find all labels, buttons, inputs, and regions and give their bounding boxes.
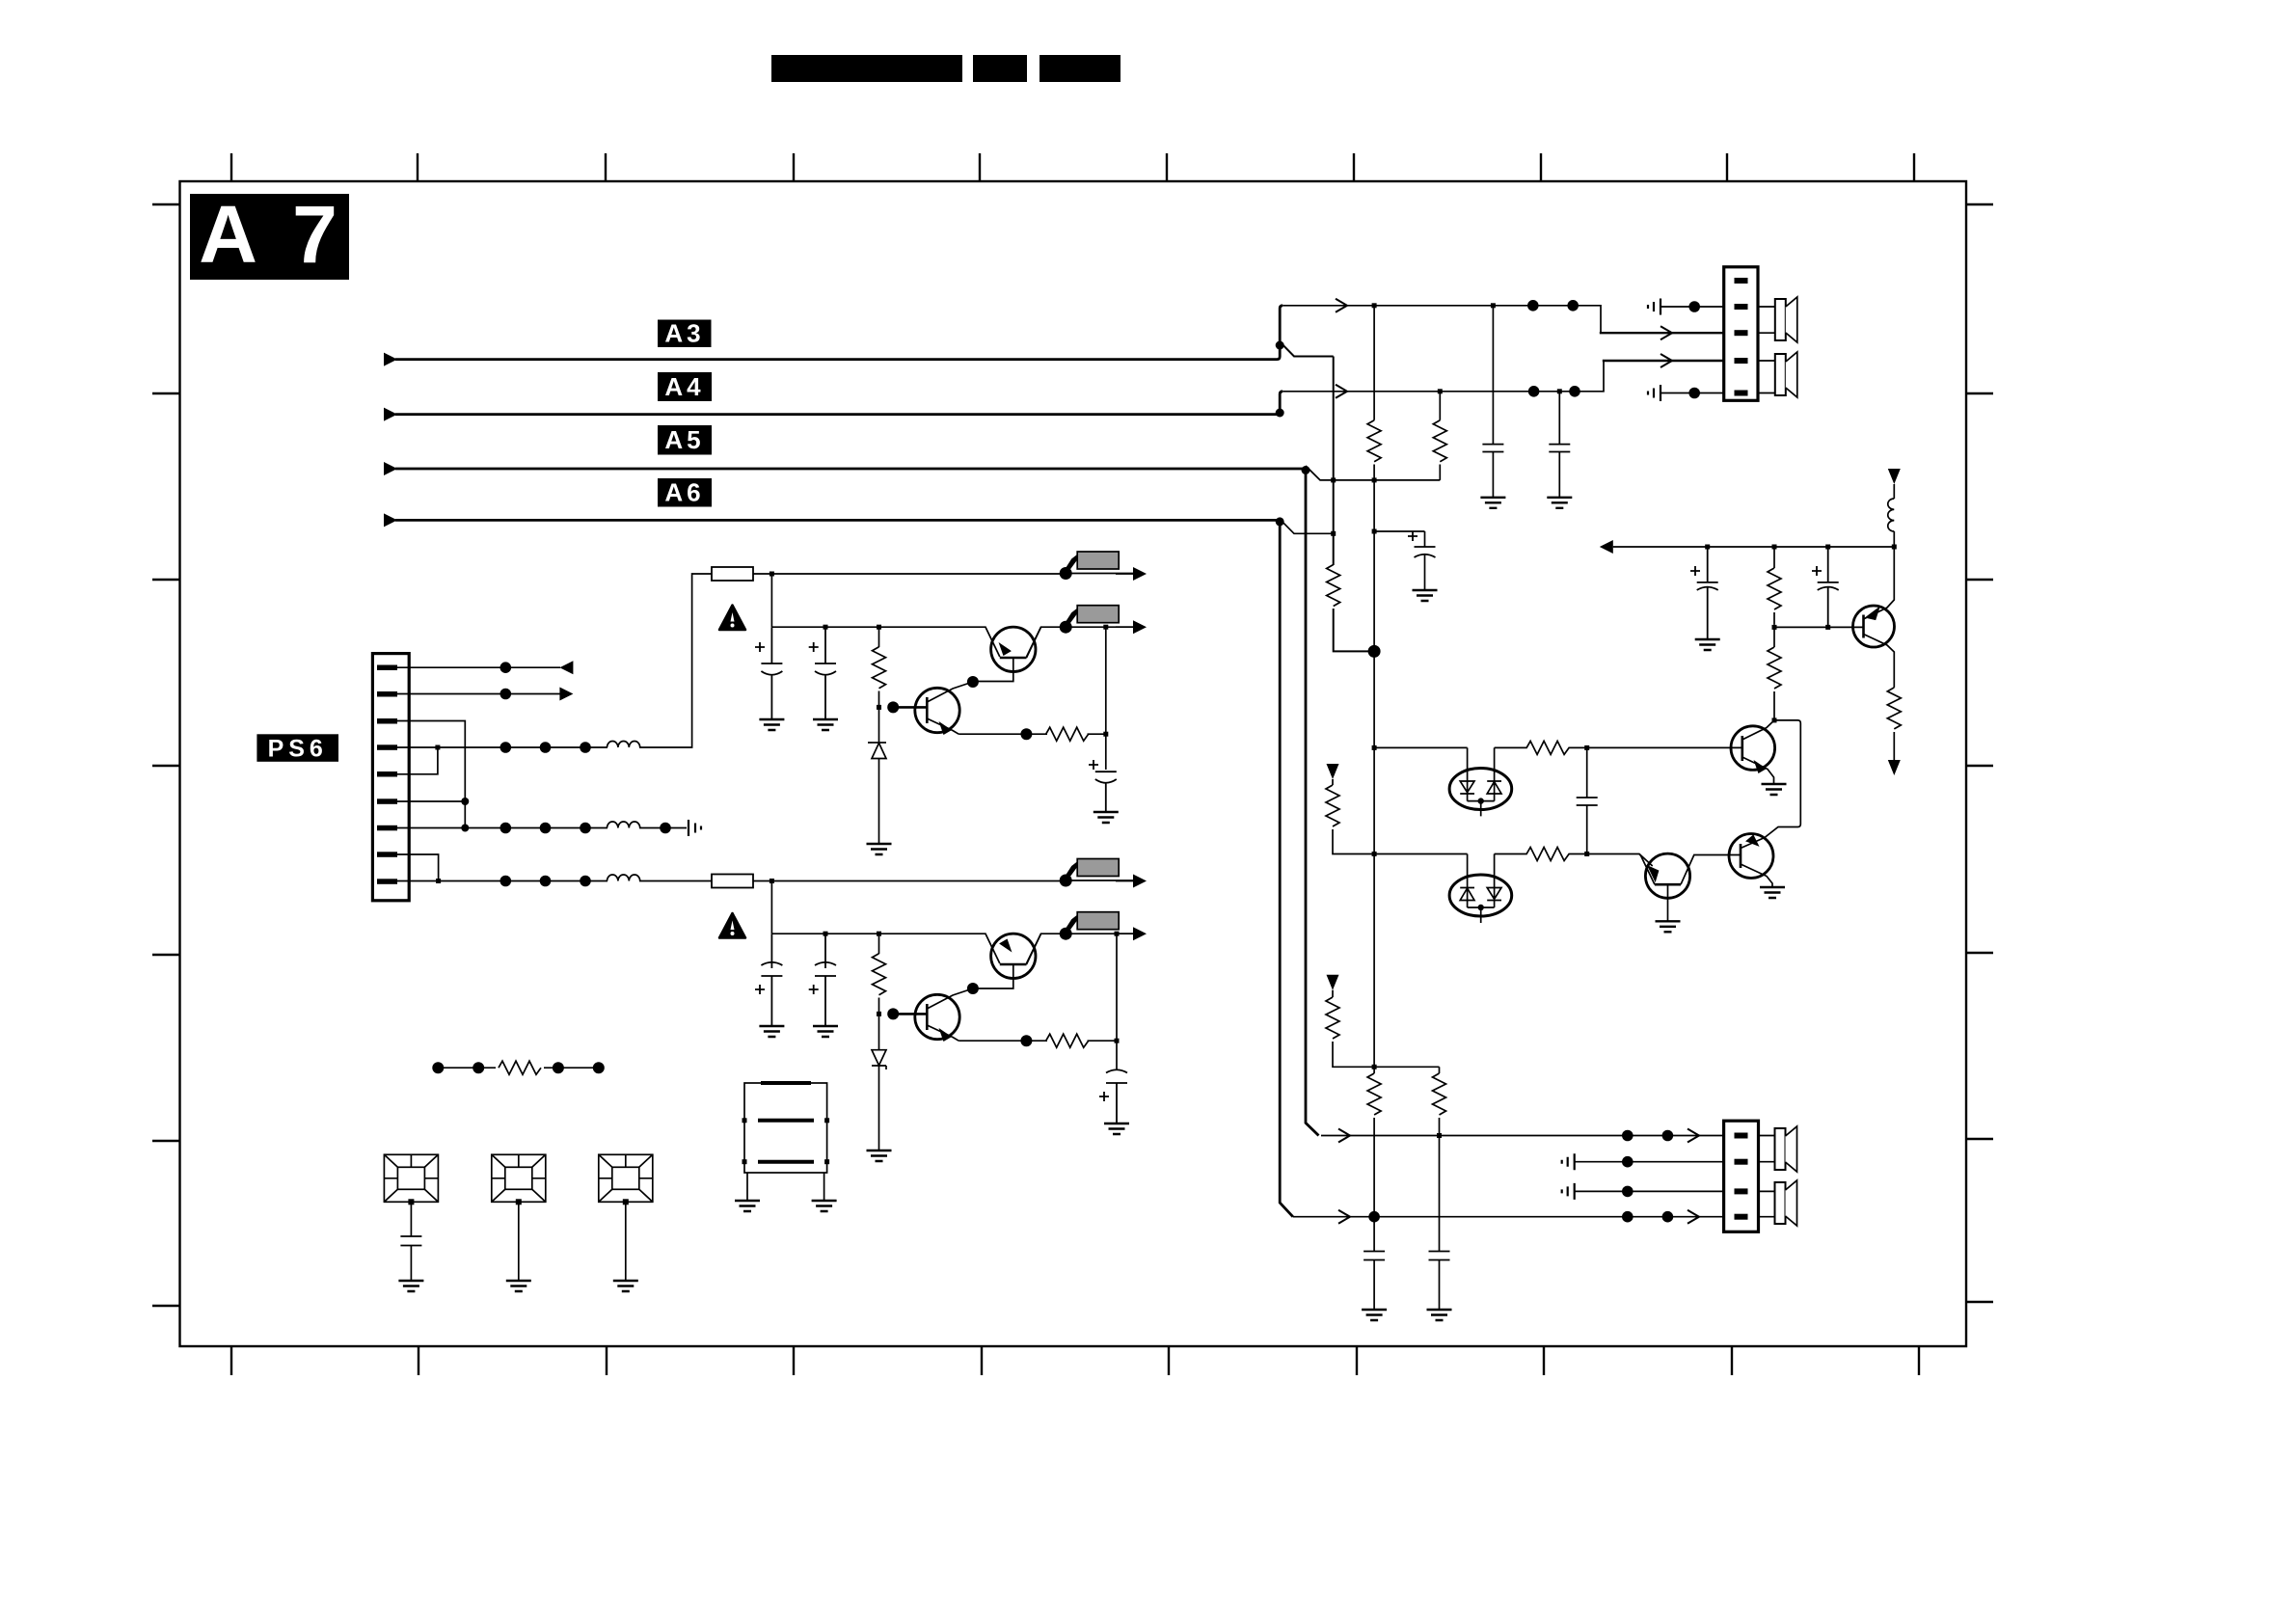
spark gap pad 1 <box>384 1154 438 1204</box>
node dot pin4 b <box>540 742 552 753</box>
wire supply row ch1 <box>771 627 1066 657</box>
bus wire A3 <box>384 353 397 366</box>
node junction on A5 branch at rail1 <box>1331 477 1336 482</box>
wire rail down ch2 <box>770 881 772 934</box>
wire spark-gap row <box>438 1067 599 1069</box>
node junction W1 rail <box>1372 303 1377 308</box>
net label A6 <box>658 478 712 507</box>
node junction W2 cap <box>1557 389 1562 393</box>
supply arrow down row2 feed <box>1327 764 1339 779</box>
capacitor pad1 <box>400 1236 421 1246</box>
pin 9 <box>377 879 397 884</box>
resistor bottom Rb <box>1439 1067 1441 1073</box>
node dot A6 bend <box>1276 517 1284 526</box>
wire to loudspeaker1 <box>1758 307 1775 333</box>
ground Cw2 <box>1547 498 1572 508</box>
loudspeaker LS2 <box>1775 352 1797 397</box>
loudspeaker LS1 <box>1775 297 1797 342</box>
inductor L1 <box>607 742 640 748</box>
node junction coil rail <box>1892 545 1897 550</box>
pin t1 <box>1735 278 1748 284</box>
connector PS6 label <box>256 734 338 762</box>
wire right rail ch1 <box>1105 627 1107 770</box>
wire pin3 to vertical tie <box>397 721 465 828</box>
jumper block body <box>744 1083 827 1173</box>
node dot row b <box>472 1062 484 1073</box>
pin t2 <box>1735 304 1748 310</box>
pin 5 <box>377 771 397 777</box>
wire E base row <box>1774 626 1864 628</box>
resistor mid R1 <box>1773 547 1775 625</box>
transistor Q4 ch2 <box>991 934 1036 978</box>
switch S1 <box>1060 552 1134 580</box>
wire pad3 down <box>625 1202 627 1281</box>
wire supply row ch2 <box>771 934 1066 963</box>
node junction bot right <box>824 1159 829 1164</box>
node junction row2 cap <box>1584 852 1589 856</box>
supply arrow down into coil <box>1888 469 1901 484</box>
wire base ch1 <box>893 706 927 709</box>
pin 8 <box>377 852 397 857</box>
node junction W2 res <box>1438 389 1443 393</box>
capacitor branch cap <box>1415 547 1436 557</box>
node dot pin2 <box>500 689 512 700</box>
wire bottom feed2 <box>1293 1216 1724 1218</box>
pin b4 <box>1735 1214 1748 1220</box>
supply arrow down bottom feed <box>1327 975 1339 990</box>
ground Cw1 <box>1480 498 1505 508</box>
ground pad3 <box>613 1281 638 1291</box>
svg-text:A5: A5 <box>664 425 704 454</box>
ground D1 ch2 <box>867 1150 892 1161</box>
node dot pin7 b <box>540 823 552 834</box>
svg-text:A4: A4 <box>664 372 704 401</box>
wire mid supply row <box>1613 546 1895 548</box>
inductor L3 <box>607 875 640 881</box>
node junction W1 cap <box>1491 303 1496 308</box>
wire return1 <box>1575 1161 1724 1163</box>
wire return2 <box>1575 1190 1724 1192</box>
node dot Q3 collector <box>967 983 979 994</box>
wire pin6 out <box>397 800 465 802</box>
transistor Q8 <box>1645 853 1689 898</box>
node dot pin7 c <box>580 823 591 834</box>
node dot feed2 a <box>1622 1211 1633 1223</box>
ground C3 ch2 <box>1104 1123 1129 1134</box>
ground Q8 <box>1656 921 1681 932</box>
capacitor C2 ch1 <box>815 627 836 719</box>
pin 6 <box>377 798 397 804</box>
arrow out mid-left <box>1600 540 1613 554</box>
transistor Q7 <box>1729 834 1773 879</box>
ground Q7 emitter <box>1760 887 1785 898</box>
arrow out channel1 top <box>1133 567 1147 581</box>
node junction right rail ch1 <box>1103 625 1108 630</box>
wire bottom feed1 <box>1321 1135 1724 1137</box>
pin b2 <box>1735 1159 1748 1165</box>
resistor Q6 collector feed <box>1773 627 1775 647</box>
rail from A3 branch down <box>1334 357 1368 652</box>
ground pad2 <box>506 1281 531 1291</box>
svg-text:PS6: PS6 <box>268 735 328 762</box>
capacitor C1 ch2 <box>761 934 782 1026</box>
wire base ch2 <box>893 1013 927 1015</box>
node junction rail row2 <box>1372 852 1377 856</box>
resistor row2 feed <box>1332 779 1334 785</box>
svg-text:A 7: A 7 <box>199 189 345 280</box>
node dot base ch2 <box>887 1008 899 1019</box>
connector bottom speakers body <box>1724 1121 1759 1232</box>
node junction row1 cap <box>1584 745 1589 750</box>
wire A5 branch <box>1306 466 1440 480</box>
node dot A3 branch point <box>1276 341 1284 350</box>
node junction R2 right ch1 <box>1103 732 1108 737</box>
wire A6 branch <box>1280 519 1334 533</box>
wire Q1 emitter row <box>958 733 1106 735</box>
wire right rail ch2 <box>1116 934 1118 1070</box>
node junction bottom node rail <box>1372 1065 1377 1069</box>
node dot row a <box>432 1062 444 1073</box>
chassis ground return2 <box>1562 1183 1575 1200</box>
supply arrow down out <box>1888 760 1901 775</box>
transistor Q3 ch2 <box>915 994 959 1039</box>
node junction base ch1 <box>877 705 881 710</box>
wire to loudspeaker4 <box>1759 1191 1775 1216</box>
resistor Q5 emitter <box>1887 688 1901 729</box>
arrow out channel2 top <box>1133 875 1147 888</box>
wire S3 to arrow <box>1116 880 1134 882</box>
bus wire A4 <box>384 408 397 421</box>
node junction mid cap1 <box>1705 545 1710 550</box>
node junction bot left <box>742 1159 747 1164</box>
pin b3 <box>1735 1188 1748 1194</box>
open arrow feed A4 a <box>1336 385 1347 398</box>
loudspeaker LS4 <box>1775 1180 1797 1226</box>
arrow out channel2 mid <box>1133 927 1147 940</box>
wire S2 to arrow <box>1116 626 1134 628</box>
capacitor Cw1 <box>1482 306 1503 498</box>
node dot W2 b <box>1569 386 1580 397</box>
node dot feed1 b <box>1662 1130 1674 1142</box>
ground bottom Ca <box>1362 1310 1387 1320</box>
open arrow feed2 b <box>1687 1210 1699 1224</box>
wire pin5 tie up <box>397 747 438 774</box>
wire pin8 tie down <box>397 854 439 881</box>
node dot pin9 a <box>500 876 512 887</box>
capacitor mid C1 <box>1697 547 1718 639</box>
open arrow feed1 b <box>1687 1129 1699 1143</box>
capacitor mid C2 <box>1818 547 1839 627</box>
resistor R2 ch1 <box>1046 727 1089 741</box>
node dot pin3/pin7 tie <box>461 825 469 832</box>
node dot row d <box>593 1062 605 1073</box>
wire A3 branch to rail <box>1280 341 1334 356</box>
node dot Q1 collector <box>967 676 979 688</box>
capacitor Cw2 <box>1549 392 1570 498</box>
node dot pin3/pin6 tie <box>461 798 469 805</box>
node junction res1 ch1 <box>877 625 881 630</box>
pin 3 <box>377 718 397 724</box>
net label A4 <box>658 372 712 401</box>
node dot speaker1 return <box>1688 301 1700 312</box>
wire F2 to switch <box>753 880 1066 882</box>
chassis ground speaker2 return <box>1648 385 1660 401</box>
connector top speakers body <box>1724 267 1758 401</box>
node junction on A6 branch at rail1 <box>1331 531 1336 536</box>
node dot return1 <box>1622 1156 1633 1168</box>
warning triangle ch1 <box>719 606 745 631</box>
chassis ground return1 <box>1562 1153 1575 1170</box>
node junction cap2 bottom <box>1825 625 1830 630</box>
resistor bottom Ra <box>1373 1067 1375 1073</box>
node dot pin4 c <box>580 742 591 753</box>
resistor divider R2 top <box>1439 392 1441 480</box>
transistor Q6 <box>1731 726 1775 771</box>
node junction R2 right ch2 <box>1115 1039 1120 1043</box>
open arrow feed A3 b <box>1660 326 1672 339</box>
ground bottom Cb <box>1427 1310 1452 1320</box>
switch S2 <box>1060 606 1134 634</box>
jumper bar top <box>761 1081 811 1085</box>
node dot pin9 b <box>540 876 552 887</box>
bus wire A5 <box>384 462 397 475</box>
wire to loudspeaker3 <box>1759 1136 1775 1162</box>
wire to loudspeaker2 <box>1758 361 1775 393</box>
spark gap pad 3 <box>599 1154 653 1204</box>
switch S3 <box>1060 859 1134 887</box>
node junction cap1 ch2 <box>823 932 828 936</box>
wire opto row1 <box>1374 746 1742 748</box>
title redaction bar 2 <box>973 55 1027 82</box>
node dot A5 bend <box>1302 466 1310 474</box>
capacitor C2 ch2 <box>815 934 836 1026</box>
node junction on A5 branch at rail2 <box>1372 477 1377 482</box>
pin 1 <box>377 665 397 671</box>
optocoupler diode pair D11 <box>1449 854 1512 924</box>
ground mid C1 <box>1695 639 1720 650</box>
capacitor C3 ch1 <box>1095 771 1117 812</box>
node junction mid res <box>1772 545 1777 550</box>
pin t5 <box>1735 391 1748 396</box>
ground C2 ch2 <box>813 1026 838 1037</box>
node dot W1 b <box>1567 300 1579 311</box>
arrow out pin2 (right) <box>559 688 573 701</box>
wire pin9 out <box>397 880 712 882</box>
zener D1 ch2 <box>872 1014 886 1150</box>
pin 7 <box>377 826 397 831</box>
node junction E base <box>1772 625 1777 630</box>
open arrow feed1 a <box>1338 1129 1350 1143</box>
node junction mid right <box>824 1118 829 1123</box>
arrow out channel1 mid <box>1133 620 1147 634</box>
resistor R1 ch2 <box>878 934 880 1014</box>
wire opto row2 <box>1374 854 1653 867</box>
resistor R1 ch1 <box>878 627 880 707</box>
node junction pin4/pin5 <box>435 745 440 750</box>
node dot return2 <box>1622 1186 1633 1198</box>
pin t3 <box>1735 330 1748 336</box>
optocoupler diode pair D10 <box>1449 747 1512 816</box>
node dot base ch1 <box>887 701 899 713</box>
node dot feed1 a <box>1622 1130 1633 1142</box>
zener D1 ch1 <box>868 707 886 844</box>
wire pin1 out <box>397 666 560 668</box>
resistor in A3 rail <box>1327 565 1340 607</box>
node dot W2 a <box>1528 386 1540 397</box>
ground C1 ch2 <box>759 1026 784 1037</box>
ground C2 ch1 <box>813 719 838 730</box>
wire cap branch <box>1374 531 1424 590</box>
net label A5 <box>658 425 712 455</box>
wire speaker1 return <box>1660 306 1724 308</box>
bus wire A6 <box>384 513 397 527</box>
wire Q3 emitter row <box>958 1040 1117 1042</box>
pin 4 <box>377 744 397 750</box>
svg-text:A6: A6 <box>664 478 704 507</box>
border frame <box>180 181 1967 1346</box>
node junction Q6 collector <box>1772 717 1777 722</box>
ground C1 ch1 <box>759 719 784 730</box>
ground D1 ch1 <box>867 844 892 854</box>
wire feed A4 top <box>1282 361 1604 392</box>
fuse F1 <box>712 567 753 581</box>
node junction F2 out <box>769 879 774 883</box>
transistor Q5 <box>1853 606 1895 647</box>
ground Q6 emitter <box>1762 784 1787 795</box>
node dot speaker2 return <box>1688 388 1700 399</box>
open arrow feed A4 b <box>1660 354 1672 367</box>
pin t4 <box>1735 358 1748 364</box>
title redaction bar 1 <box>771 55 962 82</box>
switch S4 <box>1060 912 1134 940</box>
warning triangle ch2 <box>719 913 745 938</box>
node dot Ra wire2 <box>1368 1211 1380 1223</box>
wire pin4 out <box>397 574 712 747</box>
resistor row2 <box>1526 848 1569 861</box>
board label A7 <box>190 194 349 280</box>
jumper bar mid <box>758 1119 814 1123</box>
wire pad2 down <box>518 1202 520 1281</box>
node dot row c <box>553 1062 564 1073</box>
node junction mid left <box>742 1118 747 1123</box>
node junction res1 ch2 <box>877 932 881 936</box>
node junction pin8/pin9 <box>436 879 441 883</box>
capacitor between rows <box>1577 747 1598 853</box>
fuse F2 <box>712 875 753 888</box>
node dot feed2 b <box>1662 1211 1674 1223</box>
svg-text:A3: A3 <box>664 319 704 348</box>
wire S1 to arrow <box>1116 573 1134 575</box>
node dot W1 a <box>1527 300 1539 311</box>
capacitor C1 ch1 <box>761 627 782 719</box>
wire pin2 out <box>397 693 560 695</box>
transistor Q1 ch1 <box>915 688 959 732</box>
inductor mid rail <box>1888 484 1895 547</box>
wire Q6 to Q7 link <box>1765 720 1800 838</box>
wire F1 to switch <box>753 573 1066 575</box>
open arrow feed2 a <box>1338 1210 1350 1224</box>
node junction Rb wire1 <box>1437 1133 1442 1138</box>
title redaction bar 3 <box>1039 55 1120 82</box>
wire pad1 down <box>410 1202 412 1281</box>
node dot A4 bend <box>1276 409 1284 418</box>
capacitor C3 ch2 <box>1106 1069 1127 1123</box>
ground C3 ch1 <box>1093 812 1119 823</box>
loudspeaker LS3 <box>1775 1126 1797 1172</box>
wire S4 to arrow <box>1116 933 1134 934</box>
pin b1 <box>1735 1133 1748 1139</box>
chassis ground speaker1 return <box>1648 299 1660 315</box>
spark gap pad 2 <box>492 1154 546 1204</box>
open arrow feed A3 a <box>1336 299 1347 312</box>
wire pin7 out <box>397 827 687 829</box>
node dot emitter row ch1 <box>1020 728 1032 740</box>
node dot pin7 a <box>500 823 512 834</box>
node junction rail row1 <box>1372 745 1377 750</box>
pin 2 <box>377 691 397 697</box>
net label A3 <box>658 320 712 348</box>
node junction cap1 ch1 <box>823 625 828 630</box>
node dot rail joint <box>1368 645 1381 658</box>
ground jumper right <box>812 1201 837 1211</box>
wire jumper legs <box>747 1173 824 1201</box>
resistor row1 <box>1526 741 1569 754</box>
resistor bottom feed <box>1332 990 1334 997</box>
node dot pin7 d <box>660 823 671 834</box>
transistor Q2 ch1 <box>991 627 1036 671</box>
arrow out pin1 (left) <box>559 661 573 674</box>
node dot pin4 a <box>500 742 512 753</box>
node junction mid cap2 <box>1825 545 1830 550</box>
jumper bar bottom <box>758 1160 814 1164</box>
rail mid vertical <box>1373 651 1375 1067</box>
node junction F1 out <box>769 572 774 577</box>
capacitor bottom Ca <box>1363 1252 1385 1311</box>
wire rail down ch1 <box>770 574 772 627</box>
inductor L2 <box>607 822 640 828</box>
node dot emitter row ch2 <box>1020 1035 1032 1046</box>
node junction base ch2 <box>877 1012 881 1016</box>
chassis ground pin7 <box>688 820 701 836</box>
resistor divider R top rail <box>1373 306 1375 652</box>
ground pad1 <box>398 1281 423 1291</box>
resistor R2 ch2 <box>1046 1034 1089 1047</box>
capacitor bottom Cb <box>1429 1252 1450 1311</box>
node dot pin9 c <box>580 876 591 887</box>
node junction right rail ch2 <box>1115 932 1120 936</box>
wire feed A3 top <box>1282 306 1601 333</box>
connector PS6 body <box>372 654 409 901</box>
wire speaker2 return <box>1660 392 1724 394</box>
ground jumper left <box>735 1201 760 1211</box>
ground cap branch <box>1413 590 1438 601</box>
node junction cap branch <box>1372 529 1377 534</box>
resistor spark row <box>499 1061 541 1074</box>
node dot pin1 <box>500 662 512 673</box>
